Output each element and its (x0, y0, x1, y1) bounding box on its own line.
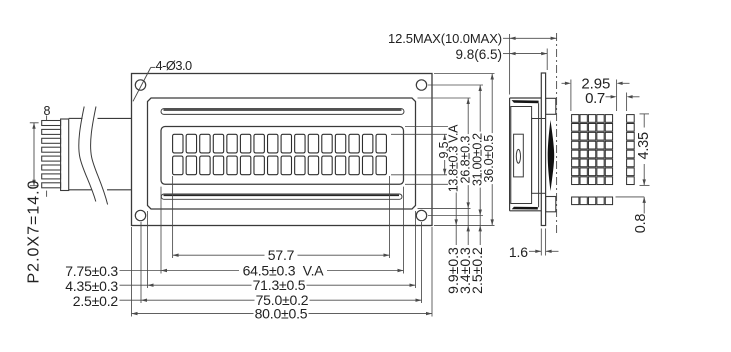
svg-text:71.3±0.5: 71.3±0.5 (253, 277, 306, 293)
svg-text:8: 8 (44, 104, 51, 118)
svg-text:2.5±0.2: 2.5±0.2 (73, 293, 119, 309)
svg-text:4-Ø3.0: 4-Ø3.0 (156, 58, 193, 73)
svg-text:57.7: 57.7 (268, 247, 295, 263)
svg-text:1.6: 1.6 (509, 244, 528, 260)
svg-text:0.7: 0.7 (585, 90, 605, 107)
svg-text:12.5MAX(10.0MAX): 12.5MAX(10.0MAX) (388, 31, 502, 46)
svg-text:36.0±0.5: 36.0±0.5 (482, 135, 496, 183)
svg-text:64.5±0.3 V.A: 64.5±0.3 V.A (243, 262, 325, 278)
svg-text:7.75±0.3: 7.75±0.3 (65, 263, 118, 279)
svg-text:4.35±0.3: 4.35±0.3 (65, 278, 118, 294)
svg-text:P2.0X7=14.0: P2.0X7=14.0 (26, 180, 43, 284)
svg-text:9.8(6.5): 9.8(6.5) (455, 47, 502, 62)
svg-text:0.8: 0.8 (633, 214, 649, 234)
svg-text:2.5±0.2: 2.5±0.2 (469, 247, 485, 294)
svg-text:80.0±0.5: 80.0±0.5 (255, 306, 308, 322)
svg-text:4.35: 4.35 (636, 132, 652, 160)
